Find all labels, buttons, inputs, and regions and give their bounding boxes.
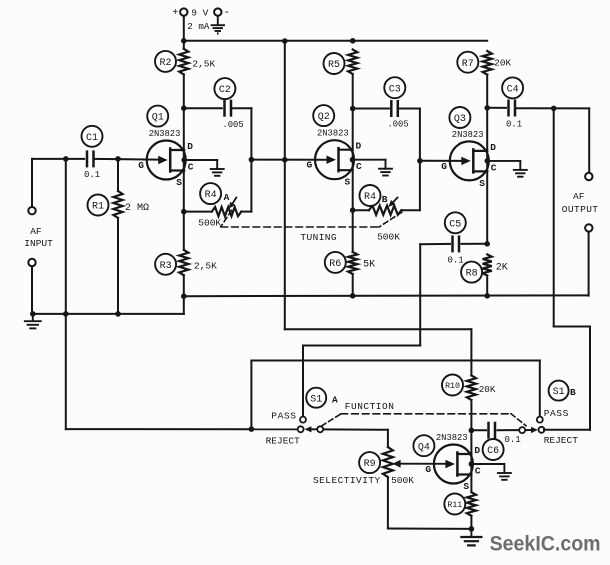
case wire of Q4 to ground [471,463,504,465]
node W2 / reject line [249,426,255,432]
wire C3 right vertical down to R4B [419,109,421,211]
wire W2 right vertical down to S1B pass [539,361,541,416]
terminal AF output (upper) [585,173,592,180]
node R2/C2/Q1-D [181,105,187,111]
wire S1A wiper to R9 top [323,428,388,430]
svg-text:SELECTIVITY: SELECTIVITY [313,475,381,486]
case junction dot of Q4 [469,461,475,467]
wire C5 left vertical down to S1A pass route [419,244,421,345]
svg-text:C6: C6 [487,446,499,457]
wire Q3 drain to C4 [487,107,506,109]
svg-text:REJECT: REJECT [544,435,579,446]
node R3 / bottom rail [181,293,187,299]
svg-text:R3: R3 [160,261,172,272]
svg-text:0.1: 0.1 [505,435,521,445]
label circle S1 A [306,388,338,408]
svg-text:500K: 500K [391,475,414,486]
wire Q2 drain to C3 [353,108,389,110]
svg-text:2,5K: 2,5K [192,58,215,69]
svg-text:2N3823: 2N3823 [436,433,468,443]
resistor R10 20K [442,375,496,401]
svg-text:AF: AF [573,191,585,202]
capacitor C5 0.1 [420,212,487,265]
ground (Q1 case) [211,168,224,170]
capacitor C4 0.1 [502,77,523,129]
svg-text:R4: R4 [364,192,376,203]
label circle Q4 [413,435,434,456]
ground (battery negative) [212,16,225,34]
svg-text:S: S [479,178,485,189]
svg-text:C: C [491,162,497,173]
svg-text:C4: C4 [507,85,519,96]
battery terminal - [214,7,230,19]
svg-text:R10: R10 [445,382,460,391]
svg-text:A: A [224,192,230,203]
node rail/R2 [181,38,187,44]
svg-text:D: D [474,445,480,456]
svg-text:2N3823: 2N3823 [149,129,181,139]
wire R6 bottom to rail [352,274,354,296]
svg-text:C3: C3 [389,84,401,95]
label AF OUTPUT [562,191,599,215]
svg-text:Q3: Q3 [454,114,466,125]
wire R11 bottom [470,516,472,529]
wire Q1 drain to C2 [184,107,222,109]
wire R6 top [352,210,354,252]
wire R7 bottom to Q3 drain [486,75,488,244]
wire AF input to Q1 gate [32,158,84,160]
capacitor C6 0.1 [471,423,520,460]
wire Q3 gate line [420,160,461,162]
node rail/W1 [282,38,288,44]
case wire of Q1 to ground [184,159,217,161]
svg-text:G: G [138,160,144,171]
switch S1A wiper [305,426,324,432]
wire S1B reject to right corner [544,429,590,431]
wire top rail horizontal [184,40,487,42]
ground (output stage) [461,529,481,546]
resistor R4A 500K (pot section) [184,183,252,228]
wire AF output lower to bottom rail [588,232,590,296]
label circle Q1 [147,106,168,127]
transistor Q2 2N3823 [307,129,363,188]
svg-text:R6: R6 [329,259,341,270]
svg-text:S: S [345,177,351,188]
node rail/R5 [350,38,356,44]
wire left drop (gate line to reject line) [65,159,67,429]
svg-text:2 MΩ: 2 MΩ [125,203,149,214]
wire W2 horizontal [251,360,539,362]
svg-text:OUTPUT: OUTPUT [562,204,599,215]
switch S1B wiper [519,427,538,433]
resistor R2 2.5K [155,49,216,75]
ground (Q3 case) [514,169,527,171]
svg-text:AF: AF [30,226,42,237]
svg-text:C2: C2 [219,85,231,96]
wire +9V rail [183,16,185,49]
svg-text:PASS: PASS [544,408,569,419]
svg-text:R7: R7 [462,59,474,70]
dashed mechanical link TUNING [221,226,379,228]
wire Q4 drain-source line [470,430,472,492]
switch S1B reject contact [539,427,545,433]
svg-text:S1: S1 [553,387,565,398]
node R8 / bottom rail [484,293,490,299]
svg-text:R5: R5 [328,60,340,71]
svg-text:D: D [356,141,362,152]
svg-text:C5: C5 [449,219,461,230]
node C4 wire / S1B feed [551,106,557,112]
wire R8 bottom to rail [486,276,488,296]
svg-text:0.1: 0.1 [84,170,100,180]
svg-text:2N3823: 2N3823 [452,130,484,140]
transistor Q1 2N3823 [138,129,194,188]
switch S1B pass contact [537,417,543,423]
svg-text:REJECT: REJECT [266,436,301,447]
wire reject line left [66,428,298,430]
svg-text:.005: .005 [223,120,244,130]
wire R1 top [117,159,119,191]
svg-text:INPUT: INPUT [24,238,53,249]
wire C4 to AF output corner [515,107,589,109]
node C3/Q3 gate [417,158,423,164]
wire rail step down [183,296,185,314]
svg-text:C: C [356,161,362,172]
node R6 / bottom rail [350,293,356,299]
wire W2 left vertical down to reject line [250,361,252,430]
svg-text:FUNCTION: FUNCTION [345,401,395,412]
svg-text:Q1: Q1 [152,113,164,124]
svg-text:G: G [425,464,431,475]
node left drop / ground rail [63,311,69,317]
wiper arrow of R4B [388,198,397,208]
wire W1 horizontal [285,328,472,330]
svg-text:S: S [463,481,469,492]
ground (Q4 case) [498,472,511,474]
wire right corner vertical [589,327,591,430]
resistor R9 500K SELECTIVITY [313,447,414,486]
svg-text:9 V: 9 V [191,8,208,19]
svg-text:TUNING: TUNING [300,232,337,243]
svg-text:500K: 500K [377,232,400,243]
svg-text:Q2: Q2 [318,112,330,123]
battery terminal +9V [172,8,210,32]
wiper arrow of R9 to Q4 gate [393,460,450,468]
wire bottom rail [184,294,589,297]
node AF input ground [30,311,36,317]
wire C1 to Q1 gate [94,158,158,161]
wire right route horizontal [554,326,590,328]
label circle Q2 [313,105,334,126]
wire R5 bottom to Q2 drain [352,74,354,210]
node Q4 drain / C6 [469,428,475,434]
svg-text:G: G [307,160,313,171]
svg-text:PASS: PASS [271,410,296,421]
case junction dot of Q1 [181,157,187,163]
case wire of Q2 to ground [353,159,386,161]
dashed link R4B wiper to tuning line [379,212,402,227]
svg-text:C: C [188,162,194,173]
wire S1B feed vertical from C4 wire [553,108,555,326]
node W1 / Q2 gate line [282,157,288,163]
node R5/C3/Q2-D [350,106,356,112]
node C1/R1 junction [115,156,121,162]
transistor Q4 2N3823 [425,433,481,492]
svg-text:.005: .005 [388,120,409,130]
resistor R11 [444,492,476,516]
switch S1A pass contact [300,417,306,423]
wire S1A pass vertical [302,346,304,417]
wire R1 bottom to ground rail [117,218,119,314]
node Q3 source / C5 [484,241,490,247]
svg-text:SeekIC.com: SeekIC.com [490,531,601,555]
capacitor C3 .005 [384,77,408,129]
label circle S1 B [549,381,576,401]
svg-text:S: S [176,177,182,188]
svg-text:R1: R1 [92,202,104,213]
wire W1 down to R10 [470,329,472,375]
resistor R8 2K [461,254,508,282]
svg-text:500K: 500K [198,217,221,228]
wire R3 top [183,212,185,250]
node Q1 source / R4A [181,209,187,215]
svg-text:R11: R11 [447,501,462,510]
case junction dot of Q3 [485,158,491,164]
resistor R3 2.5K [155,250,217,275]
wire Q2 gate line [251,159,325,161]
wire C3 to vertical [398,108,420,110]
wire R9 bottom to ground node [387,477,389,528]
svg-text:2K: 2K [496,262,508,273]
node R11 / R9 / ground [469,526,475,532]
wire C2 to vertical [231,107,251,109]
transistor Q3 2N3823 [441,130,497,189]
wire corner down to AF output upper terminal [588,108,590,172]
resistor R5 [324,50,358,75]
label circle Q3 [449,107,470,128]
svg-text:20K: 20K [494,58,511,69]
svg-text:D: D [490,142,496,153]
svg-text:0.1: 0.1 [448,256,464,266]
svg-text:R8: R8 [466,269,478,280]
wire C5 route horizontal [303,345,420,347]
wire AF input terminal up to gate line [31,159,33,207]
resistor R1 2 Mohm [88,191,150,218]
terminal AF input (upper) [28,207,35,214]
resistor R4B 500K (pot section) [353,185,420,243]
resistor R7 20K [457,51,511,75]
svg-text:2N3823: 2N3823 [317,129,349,139]
switch S1A reject contact [298,426,304,432]
wire ground rail left [32,313,184,315]
ground (Q2 case) [379,168,392,170]
wiper arrow of R4A [229,198,237,209]
wire R3 bottom to rail [183,275,185,296]
svg-text:0.1: 0.1 [506,120,522,130]
label AF INPUT [24,226,53,249]
svg-text:D: D [187,141,193,152]
dashed mechanical link FUNCTION [322,414,527,426]
svg-text:2 mA: 2 mA [187,21,210,32]
ground (input common) [25,314,41,329]
svg-text:5K: 5K [363,260,375,271]
node Q2 source / R4B [350,207,356,213]
svg-text:Q4: Q4 [418,442,430,453]
terminal AF output (lower) [585,224,592,231]
svg-text:+: + [172,8,178,19]
svg-text:C1: C1 [86,133,98,144]
terminal AF input (lower) [28,259,35,266]
case wire of Q3 to ground [487,160,520,162]
node R7/C4/Q3-D [484,105,490,111]
node gate line / left drop [63,156,69,162]
wire R10 bottom to Q4 drain [470,400,472,430]
svg-text:R4: R4 [205,190,217,201]
resistor R6 5K [325,252,375,274]
svg-text:S1: S1 [310,394,322,405]
case junction dot of Q2 [350,157,356,163]
node C2/Q2 gate [249,157,255,163]
svg-text:B: B [570,387,576,398]
dashed link R4A wiper to tuning line [221,211,232,227]
svg-text:A: A [332,395,338,406]
wire C2 right vertical down to R4A [250,108,252,211]
capacitor C2 .005 [214,78,243,130]
svg-text:R9: R9 [364,459,376,470]
svg-text:-: - [224,7,231,19]
svg-text:2,5K: 2,5K [194,260,217,271]
svg-text:B: B [382,194,388,205]
wire R2 bottom to Q1 drain [183,75,185,212]
capacitor C1 0.1 [82,126,103,180]
svg-text:G: G [441,161,447,172]
node R1 / ground rail [115,311,121,317]
wire AF input lower down to ground rail [31,266,33,314]
svg-text:C: C [475,466,481,477]
svg-text:R2: R2 [159,58,171,69]
svg-text:20K: 20K [479,384,496,395]
wire W1 vertical (top rail to lower route) [284,41,286,329]
